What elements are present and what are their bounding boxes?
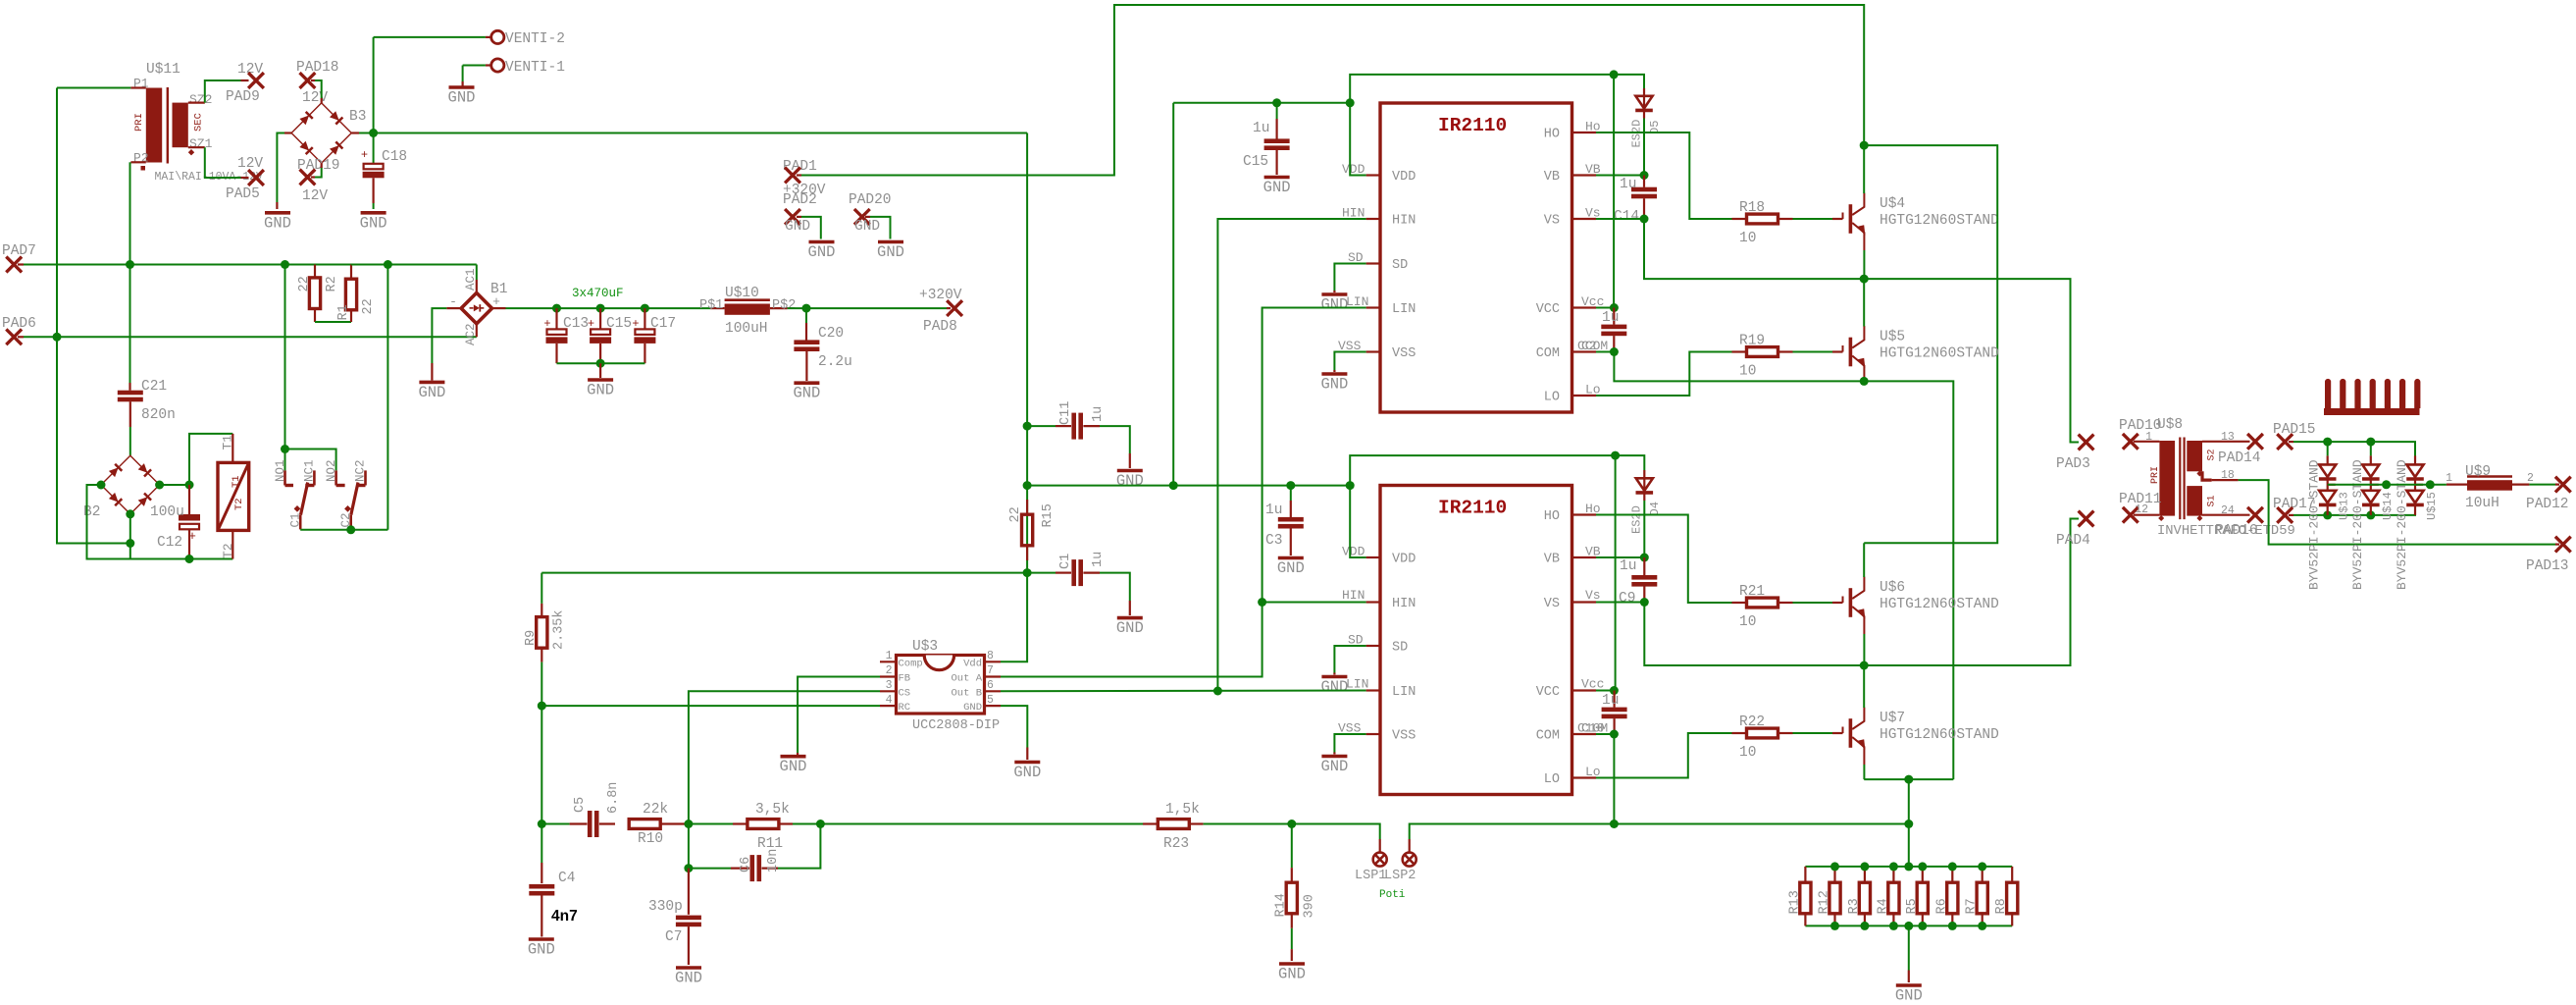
wire HO1 bbox=[1596, 132, 1732, 219]
svg-text:GND: GND bbox=[877, 243, 904, 261]
svg-text:10uH: 10uH bbox=[2465, 496, 2499, 511]
transistor U$7 HGTG12N60STAND bbox=[1842, 727, 1844, 734]
svg-text:C1: C1 bbox=[289, 512, 303, 527]
svg-text:HO: HO bbox=[1544, 509, 1560, 524]
wire PAD2 to GND bbox=[797, 216, 801, 218]
svg-text:C2: C2 bbox=[1581, 339, 1597, 353]
transistor U$6 HGTG12N60STAND bbox=[1842, 597, 1844, 604]
svg-text:BYV52PI-200-STAND: BYV52PI-200-STAND bbox=[2395, 459, 2409, 590]
wire LO1 bbox=[1596, 352, 1732, 397]
svg-text:R2: R2 bbox=[325, 276, 339, 291]
svg-text:B3: B3 bbox=[349, 109, 366, 125]
wire B3 minus to GND bbox=[284, 132, 291, 133]
node 12V junction bbox=[369, 129, 378, 137]
svg-text:10: 10 bbox=[1739, 364, 1756, 380]
node R10/R11/CS bbox=[684, 820, 693, 828]
wire NO1 branch down bbox=[284, 265, 286, 450]
wire relay coil branch bbox=[189, 434, 232, 485]
node COM2 bus bbox=[1610, 820, 1619, 828]
resistor R3 bbox=[1864, 867, 1866, 882]
wire bank gnd bbox=[1908, 926, 1910, 970]
IR2110-1 pin VDD bbox=[1366, 174, 1380, 176]
svg-text:5: 5 bbox=[987, 694, 994, 707]
node C11 bbox=[1023, 422, 1032, 431]
wire +320 to leg2 bbox=[1864, 145, 1997, 543]
svg-text:2.2u: 2.2u bbox=[818, 354, 852, 370]
wire 12V to VCC1 bbox=[1613, 75, 1615, 308]
wire HO2 bbox=[1596, 515, 1732, 604]
svg-text:VCC: VCC bbox=[1536, 302, 1560, 317]
svg-text:GND: GND bbox=[587, 382, 614, 399]
wire FB to GND bbox=[798, 677, 880, 754]
node mid U$14 bbox=[2382, 480, 2391, 489]
svg-text:12V: 12V bbox=[237, 156, 263, 172]
svg-text:LO: LO bbox=[1544, 772, 1560, 787]
bridge rectifier B2 bbox=[101, 455, 160, 514]
svg-text:COM: COM bbox=[1536, 346, 1560, 361]
svg-text:R19: R19 bbox=[1739, 334, 1765, 349]
pad PAD12 bbox=[2555, 477, 2571, 493]
svg-text:IR2110: IR2110 bbox=[1438, 498, 1507, 519]
ground VENTI-1 bbox=[449, 85, 475, 89]
resistor R11 bbox=[689, 823, 733, 825]
capacitor C11 bbox=[1027, 425, 1056, 427]
svg-text:T2: T2 bbox=[233, 498, 245, 510]
ground PAD20 bbox=[878, 240, 903, 244]
node rail2 C3 bbox=[1286, 481, 1295, 490]
svg-text:Out A: Out A bbox=[951, 673, 982, 685]
resistor R2 bbox=[285, 264, 316, 266]
svg-text:GND: GND bbox=[528, 941, 555, 959]
svg-text:U$14: U$14 bbox=[2381, 492, 2395, 520]
node VCC2 bbox=[1610, 686, 1619, 695]
svg-text:HIN: HIN bbox=[1392, 214, 1416, 229]
svg-text:C5: C5 bbox=[573, 797, 588, 813]
wire PAD17 bottom bus bbox=[2289, 514, 2293, 516]
resistor R18 bbox=[1732, 218, 1748, 220]
svg-text:R22: R22 bbox=[1739, 714, 1765, 730]
resistor R13 bbox=[1804, 867, 1806, 882]
wire 12V down to C11 bbox=[1026, 133, 1028, 573]
node C12 top bbox=[185, 481, 194, 490]
svg-text:SD: SD bbox=[1392, 258, 1408, 273]
wire rail to IR2110s bbox=[1027, 485, 1350, 487]
inductor U$9 bbox=[2447, 484, 2467, 486]
svg-text:VS: VS bbox=[1544, 597, 1560, 611]
svg-text:VDD: VDD bbox=[1392, 170, 1416, 185]
wire pin13 to PAD14 bbox=[2202, 441, 2250, 443]
node 12V rail mid bbox=[1023, 481, 1032, 490]
ground C4 bbox=[529, 937, 554, 941]
ground C15 bbox=[1264, 176, 1290, 180]
svg-text:R12: R12 bbox=[1818, 890, 1832, 914]
diode U$13 BYV52PI-200 bbox=[2327, 442, 2329, 455]
node diode U$13 top bbox=[2323, 438, 2332, 447]
svg-text:12V: 12V bbox=[302, 188, 328, 204]
svg-text:+: + bbox=[361, 148, 368, 162]
svg-text:NO2: NO2 bbox=[325, 459, 338, 482]
pad PAD7 bbox=[6, 257, 22, 273]
svg-text:7: 7 bbox=[987, 664, 994, 677]
wire bank feed bbox=[1908, 779, 1910, 867]
svg-text:U$13: U$13 bbox=[2338, 492, 2351, 520]
wire 12V to VCC2 bbox=[1615, 455, 1617, 690]
svg-text:PRI: PRI bbox=[2150, 466, 2161, 484]
svg-text:3: 3 bbox=[886, 679, 893, 692]
svg-text:LSP1: LSP1 bbox=[1355, 869, 1386, 883]
svg-text:U$11: U$11 bbox=[146, 62, 180, 78]
IR2110-1 pin VB bbox=[1572, 174, 1597, 176]
ground under C18 bbox=[361, 211, 386, 215]
connector VENTI-1 bbox=[491, 59, 504, 72]
node C1 row bbox=[1023, 568, 1032, 577]
pad PAD13 bbox=[2555, 537, 2571, 553]
svg-text:SD: SD bbox=[1392, 641, 1408, 656]
svg-text:100u: 100u bbox=[150, 504, 184, 520]
ground PAD2 bbox=[809, 240, 835, 244]
wire VENTI-2 net bbox=[373, 37, 375, 133]
ground B1 minus bbox=[419, 381, 444, 385]
svg-text:GND: GND bbox=[1895, 987, 1923, 1005]
svg-text:U$10: U$10 bbox=[725, 286, 759, 301]
pad PAD14 bbox=[2247, 434, 2263, 450]
wire diode output row bbox=[2328, 484, 2447, 486]
svg-text:T1: T1 bbox=[231, 475, 242, 488]
node VB1 bbox=[1640, 171, 1649, 180]
svg-text:LIN: LIN bbox=[1346, 677, 1368, 692]
svg-text:HGTG12N60STAND: HGTG12N60STAND bbox=[1880, 346, 1999, 362]
svg-text:1u: 1u bbox=[1620, 177, 1636, 192]
relay contact blade C2 bbox=[351, 483, 358, 515]
wire VCC1 bbox=[1596, 307, 1614, 309]
svg-text:NO1: NO1 bbox=[274, 459, 287, 482]
wire COM2 down to bus bbox=[1613, 734, 1615, 824]
svg-text:R15: R15 bbox=[1041, 503, 1056, 527]
svg-text:C9: C9 bbox=[1619, 591, 1635, 607]
svg-text:C15: C15 bbox=[1243, 154, 1268, 170]
svg-text:HGTG12N60STAND: HGTG12N60STAND bbox=[1880, 597, 1999, 612]
svg-text:GND: GND bbox=[1320, 376, 1348, 394]
svg-text:LIN: LIN bbox=[1392, 302, 1416, 317]
svg-text:P$1: P$1 bbox=[699, 298, 723, 313]
svg-text:GND: GND bbox=[1278, 966, 1306, 983]
svg-text:4n7: 4n7 bbox=[551, 908, 578, 925]
node diode U$13 bottom bbox=[2323, 510, 2332, 519]
svg-text:NC2: NC2 bbox=[354, 459, 368, 482]
svg-text:FB: FB bbox=[899, 673, 911, 685]
ground C7 bbox=[676, 966, 701, 970]
svg-text:C15: C15 bbox=[606, 316, 632, 332]
relay contact blade C1 bbox=[301, 483, 308, 515]
svg-text:U$6: U$6 bbox=[1880, 580, 1905, 596]
wire R9 to C5 node bbox=[541, 706, 542, 863]
node OutB HIN1 branch bbox=[1213, 687, 1222, 696]
wire LO2 bbox=[1596, 733, 1732, 778]
svg-text:HGTG12N60STAND: HGTG12N60STAND bbox=[1880, 727, 1999, 743]
svg-text:330p: 330p bbox=[648, 899, 683, 915]
wire CS net bbox=[689, 691, 880, 823]
svg-text:GND: GND bbox=[793, 385, 820, 402]
svg-text:PAD16: PAD16 bbox=[2215, 523, 2258, 539]
pad PAD1 bbox=[785, 168, 800, 184]
wire AC1 bbox=[476, 265, 478, 281]
wire leg1 mid to PAD3 bbox=[1864, 279, 2079, 442]
wire SZ2 to PAD9 bbox=[188, 101, 205, 103]
capacitor C7 bbox=[688, 869, 690, 915]
svg-text:18: 18 bbox=[2221, 469, 2235, 482]
node HIN2 branch bbox=[1258, 598, 1266, 607]
ground 3x470uF bbox=[599, 363, 601, 378]
transformer U$8 polarity marks bbox=[2158, 515, 2164, 521]
resistor R23 bbox=[1143, 822, 1159, 824]
svg-text:C6: C6 bbox=[739, 857, 753, 873]
wire top rail D4 bbox=[1350, 455, 1615, 486]
connector VENTI-2 bbox=[491, 30, 504, 43]
capacitor C3 bbox=[1290, 486, 1292, 501]
IR2110-1 pin LIN bbox=[1366, 306, 1380, 308]
node C20 bbox=[802, 304, 811, 313]
svg-text:ES2D: ES2D bbox=[1630, 505, 1644, 534]
svg-text:R23: R23 bbox=[1163, 836, 1189, 852]
node B2 left bbox=[97, 481, 106, 490]
wire VB1 bbox=[1596, 175, 1644, 177]
svg-text:R13: R13 bbox=[1787, 890, 1802, 914]
svg-text:C2: C2 bbox=[339, 512, 353, 527]
resistor R10 bbox=[629, 820, 660, 829]
node R1 branch bbox=[384, 260, 392, 269]
svg-text:PAD18: PAD18 bbox=[296, 60, 339, 76]
svg-text:PAD9: PAD9 bbox=[226, 89, 260, 105]
pad PAD15 bbox=[2277, 434, 2293, 450]
U$3 pin 5 GND bbox=[985, 705, 1002, 707]
svg-text:VS: VS bbox=[1544, 214, 1560, 229]
capacitor C4 bbox=[541, 863, 542, 883]
transformer U$11 primary pin P1 bbox=[130, 86, 145, 88]
resistor R19 bbox=[1732, 350, 1748, 352]
svg-text:HIN: HIN bbox=[1342, 588, 1365, 603]
svg-text:GND: GND bbox=[1320, 758, 1348, 775]
wire PAD1 +320V to top rail bbox=[797, 174, 801, 176]
svg-text:1u: 1u bbox=[1602, 310, 1619, 326]
svg-text:1u: 1u bbox=[1602, 693, 1619, 709]
svg-text:GND: GND bbox=[1013, 764, 1041, 781]
capacitor C20 bbox=[805, 308, 807, 323]
diode D4 ES2D bbox=[1643, 470, 1645, 478]
node C13 bbox=[552, 304, 561, 313]
svg-text:PAD8: PAD8 bbox=[923, 319, 957, 335]
svg-text:22: 22 bbox=[1008, 506, 1023, 522]
svg-text:U$15: U$15 bbox=[2425, 492, 2439, 520]
wire COM1 bbox=[1596, 351, 1614, 353]
IR2110-2 pin SD bbox=[1366, 645, 1380, 647]
svg-text:C20: C20 bbox=[818, 326, 844, 342]
svg-text:22k: 22k bbox=[643, 802, 668, 818]
svg-text:S1: S1 bbox=[2207, 495, 2218, 506]
pad PAD3 bbox=[2079, 435, 2094, 450]
pad PAD4 bbox=[2079, 511, 2094, 527]
relay coil T2 pin bbox=[232, 530, 233, 558]
svg-text:HIN: HIN bbox=[1392, 597, 1416, 611]
svg-text:P1: P1 bbox=[133, 77, 149, 91]
svg-text:PAD14: PAD14 bbox=[2218, 450, 2261, 466]
node leg1 mid bbox=[1860, 275, 1869, 284]
ground R14 bbox=[1279, 962, 1305, 966]
svg-text:R14: R14 bbox=[1274, 893, 1289, 917]
svg-text:LSP2: LSP2 bbox=[1384, 869, 1416, 883]
IR2110-1 pin HIN bbox=[1366, 218, 1380, 220]
pad PAD2 bbox=[785, 209, 800, 225]
svg-text:Poti: Poti bbox=[1379, 889, 1406, 901]
node leg2 mid bbox=[1860, 661, 1869, 670]
wire R9 top net bbox=[541, 572, 1027, 574]
node COM2 bbox=[1610, 730, 1619, 739]
pad PAD18 bbox=[300, 73, 316, 88]
IR2110-2 pin LIN bbox=[1366, 689, 1380, 691]
IR2110-1 pin COM bbox=[1572, 350, 1597, 352]
wire P2 net bbox=[130, 161, 145, 163]
svg-text:8: 8 bbox=[987, 650, 994, 662]
svg-text:C12: C12 bbox=[157, 535, 182, 551]
capacitor C10 bbox=[1613, 691, 1615, 708]
wire capacitor bottom bus bbox=[557, 362, 645, 364]
wire bank top bus bbox=[1805, 866, 2012, 868]
IR2110-2 pin VDD bbox=[1366, 556, 1380, 558]
pad PAD20 bbox=[854, 209, 870, 225]
node bus join bbox=[126, 539, 134, 548]
node COM1 bbox=[1610, 347, 1619, 356]
node VS1 bbox=[1640, 215, 1649, 224]
IC U$3 UCC2808 bbox=[897, 656, 985, 714]
svg-text:GND: GND bbox=[1116, 472, 1144, 490]
IR2110-2 pin HO bbox=[1572, 513, 1597, 515]
node bank feed top bbox=[1904, 862, 1913, 871]
svg-text:ES2D: ES2D bbox=[1630, 120, 1644, 148]
svg-text:12V: 12V bbox=[302, 90, 328, 106]
svg-text:VCC: VCC bbox=[1536, 685, 1560, 700]
svg-text:22: 22 bbox=[361, 298, 376, 314]
wire to LSP1 bbox=[1292, 824, 1380, 840]
node C12 bottom bbox=[185, 555, 194, 563]
svg-text:SEC: SEC bbox=[193, 113, 205, 132]
IR2110-2 pin LO bbox=[1572, 776, 1597, 778]
svg-text:820n: 820n bbox=[141, 407, 176, 423]
svg-text:COM: COM bbox=[1536, 729, 1560, 744]
svg-text:VENTI-2: VENTI-2 bbox=[505, 31, 565, 47]
svg-text:Out B: Out B bbox=[951, 687, 982, 699]
svg-text:U$3: U$3 bbox=[912, 639, 938, 655]
node RC bbox=[538, 702, 546, 711]
svg-text:LO: LO bbox=[1544, 391, 1560, 405]
transformer U$8 primary bbox=[2134, 441, 2159, 443]
U$3 pin 8 Vdd bbox=[985, 661, 1002, 662]
node bank feed bbox=[1904, 820, 1913, 828]
svg-text:GND: GND bbox=[264, 214, 291, 232]
svg-text:1u: 1u bbox=[1253, 121, 1269, 136]
node rail2 drop bbox=[1346, 481, 1355, 490]
svg-text:1: 1 bbox=[886, 650, 893, 662]
wire VDD1 rail bbox=[1173, 102, 1350, 104]
ground under B3 bbox=[265, 211, 290, 215]
svg-text:PAD10: PAD10 bbox=[2119, 418, 2162, 434]
node mid U$15 bbox=[2426, 480, 2435, 489]
wire bank bottom bus bbox=[1805, 925, 2012, 926]
wire SD1 to GND bbox=[1334, 264, 1365, 291]
svg-text:GND: GND bbox=[1277, 559, 1305, 577]
wire VSS1 to GND bbox=[1334, 352, 1365, 371]
IC IR2110 U1 bbox=[1380, 103, 1572, 412]
node VCC1 bbox=[1610, 303, 1619, 312]
node +320 top bbox=[1860, 141, 1869, 150]
svg-text:R7: R7 bbox=[1965, 898, 1980, 914]
diode U$15 BYV52PI-200 bbox=[2414, 442, 2416, 455]
node C2 common bbox=[346, 525, 355, 534]
resistor R4 bbox=[1892, 867, 1894, 882]
bridge rectifier B1 bbox=[461, 292, 491, 323]
svg-text:GND: GND bbox=[785, 219, 810, 235]
svg-text:NC1: NC1 bbox=[303, 459, 317, 482]
svg-text:VSS: VSS bbox=[1392, 346, 1416, 361]
IR2110-1 pin LO bbox=[1572, 395, 1597, 397]
U$3 pin 3 CS bbox=[880, 690, 897, 692]
IR2110-2 pin VCC bbox=[1572, 689, 1597, 691]
IR2110-1 pin VS bbox=[1572, 218, 1597, 220]
node bank gnd bbox=[1904, 922, 1913, 930]
svg-text:R1: R1 bbox=[336, 304, 351, 320]
wire VB2 bbox=[1596, 556, 1644, 558]
svg-text:PAD13: PAD13 bbox=[2526, 558, 2569, 574]
svg-text:PAD4: PAD4 bbox=[2056, 533, 2090, 549]
pad PAD17 bbox=[2277, 507, 2293, 523]
svg-text:HGTG12N60STAND: HGTG12N60STAND bbox=[1880, 213, 1999, 229]
svg-text:C14: C14 bbox=[1614, 209, 1639, 225]
svg-text:HO: HO bbox=[1544, 128, 1560, 142]
wire neutral to bus bbox=[57, 337, 130, 543]
svg-text:C18: C18 bbox=[382, 149, 407, 165]
U$3 pin 1 Comp bbox=[880, 661, 897, 662]
svg-text:C11: C11 bbox=[1058, 401, 1073, 425]
svg-text:Vdd: Vdd bbox=[963, 658, 982, 669]
wire PAD19 to B3 bbox=[311, 176, 315, 178]
solder pad LSP1 bbox=[1373, 853, 1387, 867]
wire pin24 to PAD16 bbox=[2202, 514, 2250, 516]
svg-text:GND: GND bbox=[448, 89, 476, 107]
svg-text:GND: GND bbox=[854, 219, 880, 235]
IR2110-1 pin SD bbox=[1366, 262, 1380, 264]
svg-text:LIN: LIN bbox=[1392, 685, 1416, 700]
node VB2 bbox=[1640, 554, 1649, 562]
svg-text:PAD5: PAD5 bbox=[226, 186, 260, 202]
svg-text:R21: R21 bbox=[1739, 584, 1765, 600]
resistor R21 bbox=[1732, 602, 1748, 604]
svg-text:12: 12 bbox=[2135, 503, 2148, 516]
ground VSS2 bbox=[1321, 755, 1347, 759]
transformer U$8 secondary S1 bbox=[2187, 486, 2202, 515]
inductor U$10 bbox=[710, 307, 724, 309]
wire PAD15 top bus bbox=[2289, 441, 2293, 443]
ground FB bbox=[781, 755, 806, 759]
wire B1 minus to GND bbox=[446, 307, 461, 309]
svg-text:+: + bbox=[492, 294, 500, 309]
ground C1 bbox=[1117, 616, 1143, 620]
svg-text:6: 6 bbox=[987, 679, 994, 692]
svg-text:24: 24 bbox=[2221, 504, 2235, 517]
transformer U$8 tap bbox=[2202, 471, 2212, 480]
node R11 right bbox=[816, 820, 825, 828]
resistor R5 bbox=[1922, 867, 1924, 882]
node diode U$14 top bbox=[2366, 438, 2375, 447]
svg-text:GND: GND bbox=[360, 214, 387, 232]
svg-text:CS: CS bbox=[899, 687, 911, 699]
